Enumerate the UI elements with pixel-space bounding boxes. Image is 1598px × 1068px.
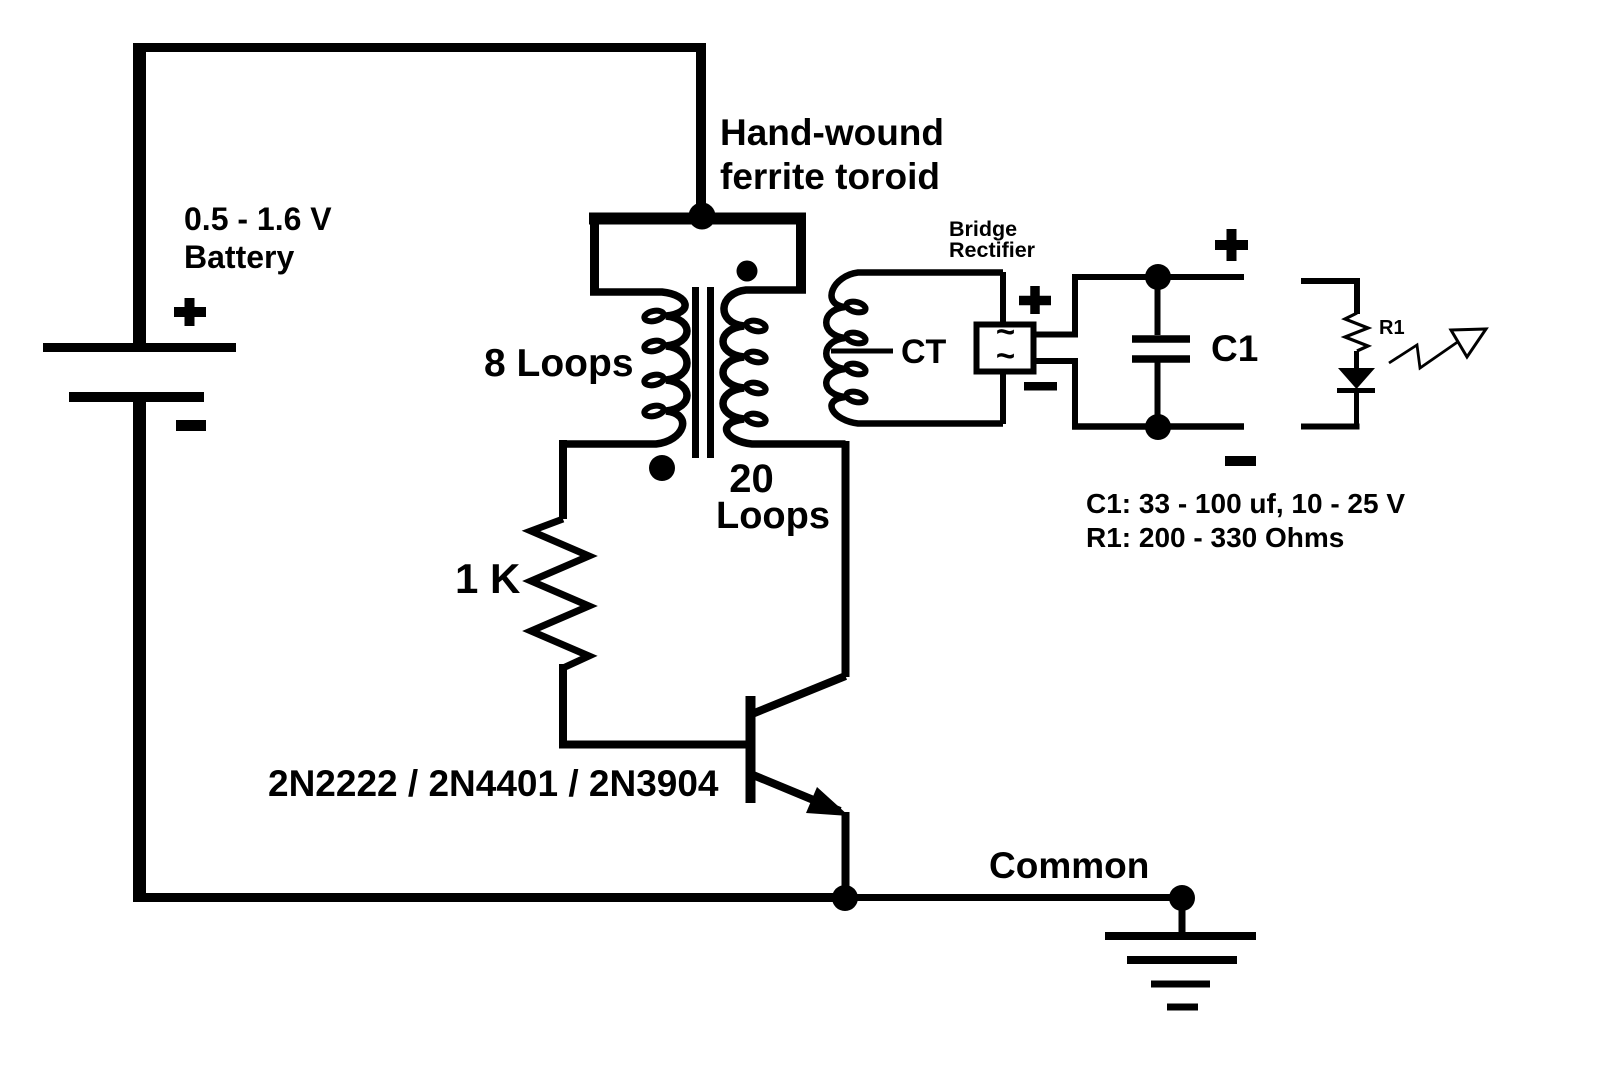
svg-text:Hand-wound: Hand-wound	[720, 112, 944, 153]
svg-text:8 Loops: 8 Loops	[484, 342, 634, 385]
svg-text:C1: C1	[1211, 328, 1258, 369]
svg-text:R1: 200 - 330 Ohms: R1: 200 - 330 Ohms	[1086, 522, 1344, 553]
svg-text:ferrite toroid: ferrite toroid	[720, 156, 940, 197]
svg-text:C1: 33 - 100 uf, 10 - 25 V: C1: 33 - 100 uf, 10 - 25 V	[1086, 488, 1405, 519]
svg-text:CT: CT	[901, 333, 947, 371]
svg-text:R1: R1	[1379, 317, 1405, 339]
svg-text:Loops: Loops	[716, 495, 830, 537]
svg-text:1 K: 1 K	[455, 555, 520, 602]
svg-text:~: ~	[996, 337, 1015, 374]
svg-text:Rectifier: Rectifier	[949, 238, 1036, 262]
svg-text:Common: Common	[989, 845, 1149, 886]
svg-text:0.5 - 1.6 V: 0.5 - 1.6 V	[184, 201, 332, 237]
svg-text:Battery: Battery	[184, 239, 294, 275]
svg-text:2N2222 / 2N4401 / 2N3904: 2N2222 / 2N4401 / 2N3904	[268, 763, 719, 804]
